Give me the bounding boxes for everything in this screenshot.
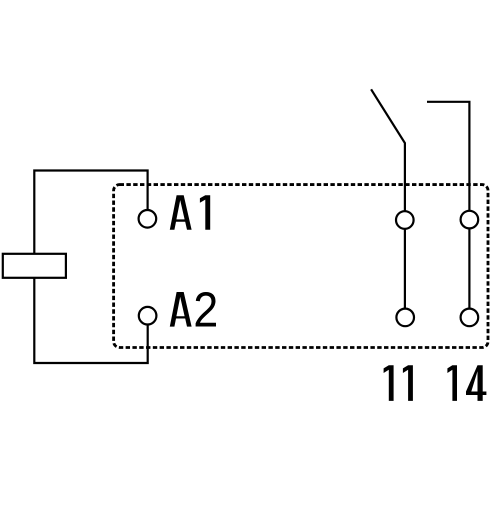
label glyph L11_b xyxy=(403,365,413,401)
label glyph A2_A xyxy=(170,292,192,327)
terminal 11 bottom pin xyxy=(396,309,414,327)
relay outline (dashed box) xyxy=(114,185,488,348)
label glyph A2_2 xyxy=(196,292,216,327)
wire: fixed contact to terminal 14 xyxy=(427,102,469,211)
terminal 11 top pin xyxy=(396,211,414,229)
label glyph L14_1 xyxy=(447,365,457,401)
wire: between terminal 14 pins xyxy=(468,228,470,308)
wire: coil loop from A1 up, left, down through coil, bottom to A2 xyxy=(34,171,147,364)
wire: movable contact arm (switch) to terminal 11 xyxy=(371,89,405,211)
label glyph L11_a xyxy=(384,365,394,401)
terminal 14 bottom pin xyxy=(461,309,479,327)
terminal A2 xyxy=(139,307,157,325)
coil K1 xyxy=(3,254,66,278)
terminal A1 xyxy=(139,210,157,228)
label glyph A1_1 xyxy=(200,195,210,230)
label glyph A1_A xyxy=(170,195,192,230)
label glyph L14_4 xyxy=(466,365,486,401)
terminal 14 top pin xyxy=(461,211,479,229)
wire: between terminal 11 pins xyxy=(404,229,406,309)
